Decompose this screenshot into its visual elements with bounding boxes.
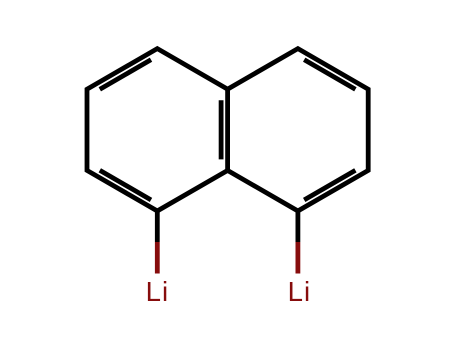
wire: left ring perimeter C4a-C4-C3-C2-C1-C8a xyxy=(87,49,228,211)
wire: left ring C3=C4 inner double line xyxy=(100,60,151,90)
wire: right ring C7=C8 inner double line xyxy=(304,170,355,200)
wire: left ring C1=C2 inner double line xyxy=(100,170,151,200)
svg-text:Li: Li xyxy=(146,276,170,307)
wire: right ring C5=C6 inner double line xyxy=(304,60,355,90)
wire: C1-Li bond upper (carbon) half xyxy=(155,211,160,242)
wire: central fusion bond inner double line xyxy=(219,100,224,159)
wire: C8-Li bond lower (lithium) half, red xyxy=(295,242,300,274)
wire: C1-Li bond lower (lithium) half, red xyxy=(155,242,160,274)
wire: C8-Li bond upper (carbon) half xyxy=(295,211,300,242)
svg-text:Li: Li xyxy=(288,276,312,307)
wire: central fusion bond C4a-C8a xyxy=(225,89,230,170)
wire: right ring perimeter C4a-C5-C6-C7-C8-C8a xyxy=(228,49,369,211)
